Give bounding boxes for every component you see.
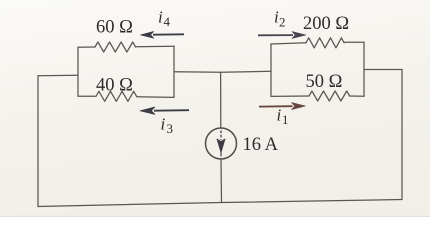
svg-text:4: 4	[164, 14, 171, 29]
wire: left block right edge	[173, 46, 175, 97]
wire: middle vertical below source	[220, 159, 223, 203]
current arrow i4	[141, 31, 185, 38]
svg-text:i: i	[277, 106, 282, 125]
svg-text:i: i	[158, 8, 163, 27]
svg-text:3: 3	[167, 121, 174, 136]
wire: left block top lead right	[136, 45, 174, 48]
wire: right outer vertical	[401, 70, 403, 200]
wire: right block bottom lead right	[350, 95, 364, 97]
svg-text:2: 2	[279, 15, 286, 30]
svg-text:16 A: 16 A	[243, 135, 279, 155]
svg-text:1: 1	[282, 112, 289, 127]
wire: left block bottom lead left	[78, 95, 96, 97]
wire: middle vertical above source	[220, 72, 222, 128]
resistor 60 ohm	[95, 42, 136, 52]
current arrow i3	[140, 107, 189, 115]
current arrow i1	[259, 103, 306, 110]
wire: left block top lead left	[78, 46, 95, 48]
wire: right block left edge	[270, 44, 272, 96]
resistor 50 ohm	[309, 91, 350, 101]
resistor 40 ohm	[96, 91, 137, 101]
wire: right tap to outer right	[364, 69, 402, 71]
svg-text:i: i	[161, 115, 166, 134]
wire: left tap to left parallel block	[38, 74, 78, 76]
svg-text:40 Ω: 40 Ω	[96, 75, 133, 95]
wire: left outer vertical	[37, 76, 39, 207]
current source 16 A	[206, 128, 237, 159]
wire: mid bus between blocks	[174, 71, 271, 72]
current arrow i2	[258, 32, 306, 39]
resistor 200 ohm	[306, 38, 344, 48]
svg-text:50 Ω: 50 Ω	[306, 72, 343, 92]
wire: right block top lead right	[344, 41, 364, 43]
wire: left block left edge	[77, 47, 79, 96]
svg-text:60 Ω: 60 Ω	[96, 17, 133, 37]
scan edge at bottom	[0, 215, 430, 217]
wire: right block bottom lead left	[271, 95, 309, 97]
wire: left block bottom lead right	[137, 96, 174, 99]
wire: right block top lead left	[271, 43, 306, 44]
wire: bottom bus	[38, 200, 402, 207]
svg-text:200 Ω: 200 Ω	[303, 14, 349, 34]
wire: right block right edge	[363, 42, 365, 96]
